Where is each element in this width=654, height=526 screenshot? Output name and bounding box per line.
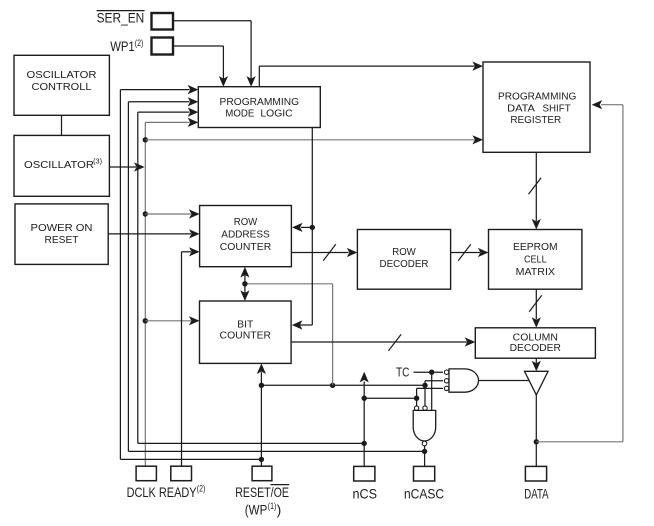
junction nCASC/left branch: [422, 449, 427, 454]
wire TC drop to NAND gate U12 input 3: [431, 372, 433, 410]
svg-text:WP1: WP1: [110, 38, 135, 54]
wire PROGRAMMING MODE LOGIC top output to PDSR: [258, 66, 260, 87]
pin DCLK pad: [136, 466, 156, 481]
wire net DATA from buffer U13 to pin: [535, 395, 537, 467]
wire DATA feedback run to right: [536, 441, 623, 443]
svg-text:(WP: (WP: [245, 502, 267, 518]
block U9 EEPROM CELL MATRIX: [489, 230, 582, 290]
block U6 ROW ADDRESS COUNTER: [200, 206, 292, 267]
svg-text:RESET: RESET: [45, 235, 80, 246]
svg-text:DATA: DATA: [507, 104, 535, 115]
svg-text:PROGRAMMING: PROGRAMMING: [498, 92, 576, 103]
wire bus PDSR to EEPROM CELL MATRIX: [535, 152, 537, 221]
bubble U12 input 1: [414, 406, 418, 410]
nand-gate U12 (vertical, output down): [413, 410, 436, 441]
svg-text:CELL: CELL: [524, 255, 547, 266]
svg-text:MODE: MODE: [225, 108, 254, 119]
bubble U12 output: [422, 441, 427, 446]
block U1 OSCILLATOR CONTROLL: [14, 55, 109, 115]
wire nCS gate riser x=416.6: [416, 388, 418, 406]
wire gray jog horizontal y=283.8: [245, 283, 333, 285]
wire DCLK branch to PROGRAMMING MODE LOGIC input 4: [145, 121, 189, 123]
svg-text:OSCILLATOR: OSCILLATOR: [24, 160, 95, 171]
bubble U11 input 3: [444, 386, 448, 390]
block U3 POWER ON RESET: [15, 204, 108, 265]
wire DCLK branch to PROGRAMMING DATA SHIFT REGISTER input 2: [145, 139, 474, 141]
wire down to NAND gate U12 input 2: [424, 385, 426, 406]
wire bus ROW DECODER to EEPROM CELL MATRIX: [451, 252, 480, 254]
block U8 ROW DECODER: [357, 230, 450, 290]
junction RESET/OE left branch: [259, 457, 264, 462]
svg-text:BIT: BIT: [237, 320, 254, 331]
svg-text:DCLK READY: DCLK READY: [127, 484, 198, 500]
wire net nCS vertical trunk x=364 with up arrowhead: [363, 382, 365, 467]
label WP1 superscript 2: [110, 38, 143, 54]
svg-text:MATRIX: MATRIX: [516, 267, 555, 278]
bubble U12 input 2: [423, 406, 427, 410]
block U10 COLUMN DECODER: [475, 328, 595, 358]
block U2 OSCILLATOR: [14, 135, 109, 196]
wire to AND gate U11 input 3: [417, 387, 443, 389]
svg-text:PROGRAMMING: PROGRAMMING: [220, 97, 300, 108]
svg-text:(1): (1): [268, 501, 277, 511]
block U7 BIT COUNTER: [200, 301, 292, 363]
wire gray jog vertical x=332.6: [332, 284, 334, 386]
junction RESET/OE with carry jog: [330, 383, 335, 388]
svg-text:DECODER: DECODER: [510, 343, 562, 354]
junction PML output to ROW ADDRESS COUNTER branch: [310, 225, 315, 230]
junction DCLK/ROW ADDRESS COUNTER branch: [143, 211, 148, 216]
wire nCASC into PROGRAMMING MODE LOGIC input 2: [128, 101, 189, 103]
block U4 PROGRAMMING MODE LOGIC: [198, 87, 320, 128]
wire OSCILLATOR CONTROLL to OSCILLATOR link: [61, 115, 63, 135]
wire RESET/OE left run y=459: [120, 458, 261, 460]
svg-text:): ): [277, 502, 282, 518]
label SER_EN with overline: [97, 10, 145, 26]
wire WP1 to PROGRAMMING MODE LOGIC: [173, 45, 223, 47]
pin SER_EN pad: [152, 13, 174, 30]
wire into ROW ADDRESS COUNTER right input: [301, 226, 312, 228]
svg-text:nCASC: nCASC: [404, 485, 444, 501]
and-gate U11 (3 bubbled inputs): [449, 369, 478, 392]
wire DCLK branch to ROW ADDRESS COUNTER input 1: [145, 213, 191, 215]
wire net TC to AND gate U11 input 1: [414, 371, 444, 373]
label (WP superscript 1): [245, 501, 281, 517]
svg-text:COUNTER: COUNTER: [220, 330, 272, 341]
bubble U11 input 2: [444, 379, 448, 383]
svg-text:DATA: DATA: [524, 485, 549, 501]
wire DATA feedback riser x=622.9: [622, 105, 624, 442]
wire jog up to AND gate U11 input 2: [424, 381, 426, 386]
junction RESET/OE gate branch: [259, 383, 264, 388]
bubble U11 input 1: [444, 370, 448, 374]
junction nCS/gate branch: [362, 396, 367, 401]
junction DATA feedback: [534, 439, 539, 444]
svg-text:nCS: nCS: [353, 485, 378, 501]
wire net DCLK vertical trunk x=145: [144, 122, 146, 466]
svg-text:TC: TC: [396, 365, 410, 380]
svg-text:REGISTER: REGISTER: [510, 115, 561, 126]
pin DATA pad: [525, 466, 546, 481]
pin WP1 pad: [152, 38, 174, 55]
wire RESET/OE branch to gates y=385: [261, 384, 425, 386]
wire into BIT COUNTER right input: [300, 324, 312, 326]
label RESET/OE with overline on OE: [235, 484, 289, 500]
junction gate-A input 2 jog: [422, 383, 427, 388]
wire AND gate U11 output to buffer enable: [479, 380, 530, 382]
wire net RESET/OE vertical trunk x=261.4 with arrow into BIT COUNTER bottom: [260, 372, 262, 466]
wire RESET/OE into PROGRAMMING MODE LOGIC input 1: [120, 89, 189, 91]
junction TC branch: [429, 370, 434, 375]
wire DATA feedback into PDSR right input: [601, 104, 623, 106]
wire COLUMN DECODER to output buffer U13: [535, 358, 537, 363]
wire nCS into PROGRAMMING MODE LOGIC input 3: [138, 111, 190, 113]
wire READY into ROW ADDRESS COUNTER input 3: [182, 251, 192, 253]
svg-text:DECODER: DECODER: [380, 259, 429, 270]
pin RESET/OE pad: [252, 466, 272, 481]
svg-text:ROW: ROW: [392, 247, 416, 258]
bus slash marker: [529, 178, 542, 194]
wire OSCILLATOR output into DCLK net: [109, 166, 136, 168]
wire bus BIT COUNTER to COLUMN DECODER: [291, 341, 467, 343]
buffer U13 output driver triangle: [525, 371, 549, 395]
wire nCASC riser x=128.4: [127, 102, 129, 452]
wire DCLK branch to BIT COUNTER left input: [145, 320, 191, 322]
svg-text:ADDRESS: ADDRESS: [221, 230, 270, 241]
wire net READY riser x=181.5: [181, 252, 183, 466]
svg-text:(3): (3): [93, 157, 102, 166]
svg-text:(2): (2): [197, 484, 206, 494]
label DCLK READY superscript 2: [127, 484, 206, 500]
junction nCS gate riser: [414, 396, 419, 401]
bus slash marker: [458, 244, 471, 260]
svg-text:SHIFT: SHIFT: [543, 104, 572, 115]
svg-text:OSCILLATOR: OSCILLATOR: [27, 70, 98, 81]
svg-text:ROW: ROW: [234, 217, 258, 228]
wire bidirectional link ROW ADDRESS COUNTER to BIT COUNTER: [244, 274, 246, 295]
wire bus ROW ADDRESS COUNTER to ROW DECODER: [291, 252, 348, 254]
wire SER_EN to PROGRAMMING MODE LOGIC: [173, 20, 251, 22]
svg-text:SER_EN: SER_EN: [97, 10, 145, 26]
pin nCS pad: [354, 466, 375, 481]
pin READY pad: [171, 466, 192, 481]
svg-text:RESET/OE: RESET/OE: [235, 484, 289, 500]
junction bidirectional link: [242, 281, 247, 286]
wire RESET/OE riser x=120.4: [119, 90, 121, 460]
junction DCLK/BIT COUNTER branch: [143, 318, 148, 323]
svg-text:COUNTER: COUNTER: [220, 242, 272, 253]
wire nCASC left run y=451: [128, 450, 424, 452]
junction nCS/left branch: [362, 441, 367, 446]
wire POWER ON RESET output to ROW ADDRESS COUNTER input 2: [108, 233, 191, 235]
svg-text:EEPROM: EEPROM: [513, 242, 558, 253]
wire PROGRAMMING MODE LOGIC bottom output x=312.3: [311, 128, 313, 326]
svg-text:CONTROLL: CONTROLL: [32, 82, 92, 93]
wire net nCASC from NAND U12 output to pin: [424, 446, 426, 467]
wire nCS left run y=443: [138, 442, 364, 444]
svg-text:(2): (2): [135, 38, 144, 48]
bus slash marker: [529, 295, 542, 311]
wire nCS riser x=137.8: [137, 112, 139, 443]
block U5 PROGRAMMING DATA SHIFT REGISTER: [483, 62, 590, 152]
bus slash marker: [389, 334, 402, 350]
pin nCASC pad: [414, 466, 435, 481]
wire bus EEPROM CELL MATRIX to COLUMN DECODER: [535, 289, 537, 319]
wire nCS branch to gates y=398: [364, 397, 416, 399]
bus slash marker: [323, 244, 336, 260]
svg-text:POWER ON: POWER ON: [31, 223, 93, 234]
svg-text:LOGIC: LOGIC: [260, 108, 293, 119]
junction DCLK/PDSR branch: [143, 137, 148, 142]
